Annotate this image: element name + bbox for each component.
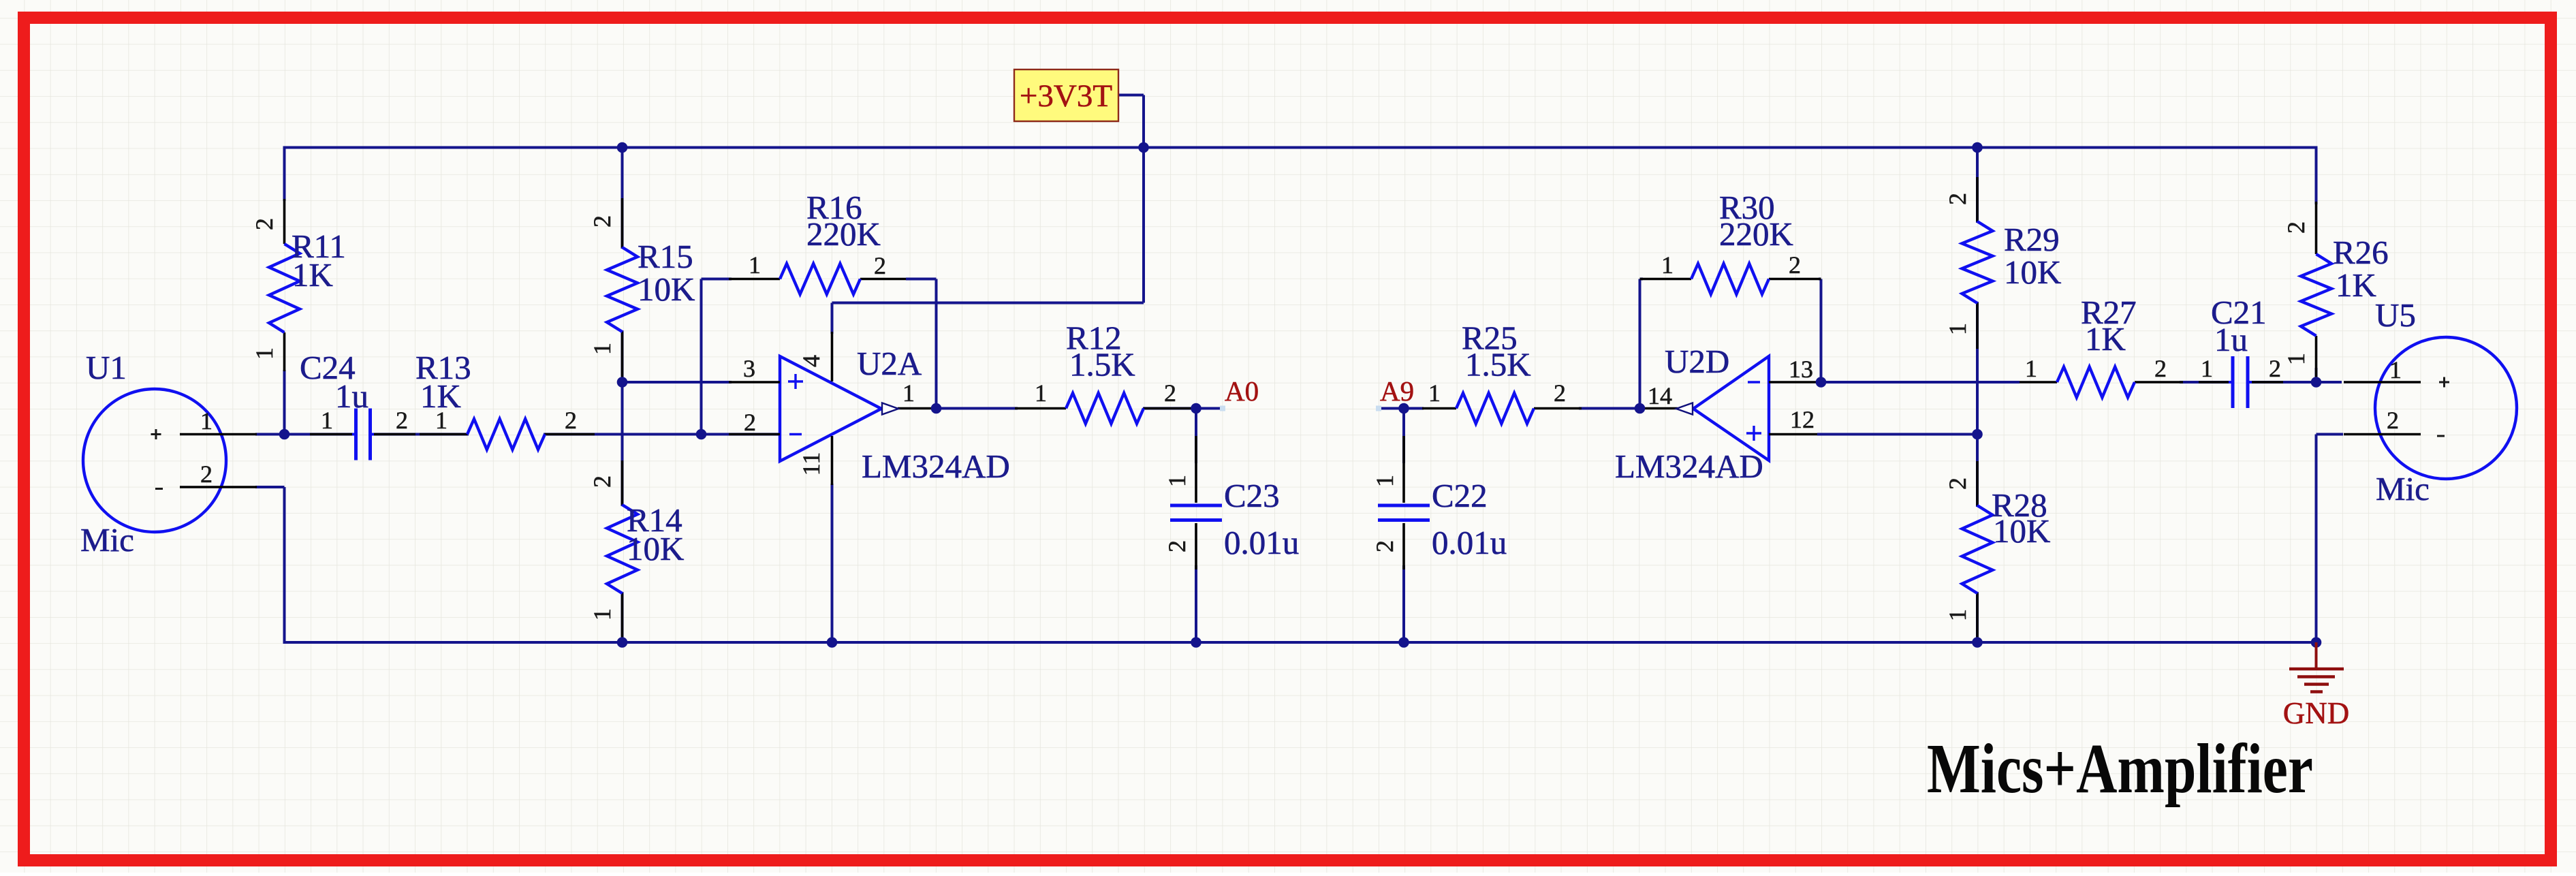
op-amp U2D bbox=[1615, 343, 1821, 485]
svg-text:1u: 1u bbox=[335, 377, 368, 415]
svg-text:1: 1 bbox=[251, 347, 278, 360]
svg-text:4: 4 bbox=[798, 355, 825, 367]
capacitor C21 bbox=[2199, 294, 2283, 408]
svg-text:1: 1 bbox=[749, 251, 761, 279]
wire R29/R28 divider column bbox=[1976, 148, 1979, 643]
svg-text:13: 13 bbox=[1789, 356, 1813, 383]
svg-text:LM324AD: LM324AD bbox=[862, 448, 1010, 485]
wire U2D pin13 row to R27/C21/mic node bbox=[1821, 381, 2342, 384]
svg-text:2: 2 bbox=[1789, 251, 1801, 279]
svg-text:1K: 1K bbox=[2336, 266, 2376, 304]
svg-text:1: 1 bbox=[588, 343, 616, 355]
capacitor C24 bbox=[300, 349, 415, 460]
svg-text:2: 2 bbox=[874, 252, 886, 279]
svg-text:2: 2 bbox=[396, 407, 408, 434]
svg-text:Mic: Mic bbox=[80, 521, 134, 559]
resistor R13 bbox=[415, 349, 595, 450]
wire C22 column bbox=[1402, 409, 1405, 643]
svg-text:R26: R26 bbox=[2333, 234, 2389, 271]
svg-text:2: 2 bbox=[1944, 478, 1971, 490]
svg-text:2: 2 bbox=[2154, 355, 2167, 382]
svg-text:2: 2 bbox=[565, 407, 577, 434]
svg-text:12: 12 bbox=[1790, 406, 1815, 433]
svg-text:U5: U5 bbox=[2375, 296, 2416, 334]
junction R28 bottom on ground bus bbox=[1972, 637, 1983, 648]
svg-text:1: 1 bbox=[1371, 475, 1398, 487]
wire +3V3T to bus and U2A pin4 bbox=[832, 95, 1144, 334]
svg-text:2: 2 bbox=[1164, 379, 1176, 407]
svg-text:1: 1 bbox=[588, 608, 616, 621]
junction U2D output node bbox=[1635, 403, 1646, 414]
svg-text:1: 1 bbox=[2201, 355, 2213, 382]
wire R30 feedback row bbox=[1640, 278, 1821, 281]
svg-text:1: 1 bbox=[435, 407, 447, 434]
svg-text:10K: 10K bbox=[2004, 253, 2061, 291]
svg-text:2: 2 bbox=[200, 460, 213, 488]
svg-text:2: 2 bbox=[2269, 355, 2281, 382]
wire R16 left leg bbox=[700, 279, 703, 435]
capacitor C23 bbox=[1163, 436, 1299, 569]
junction +3V3T on bus bbox=[1138, 142, 1149, 153]
svg-text:11: 11 bbox=[798, 452, 825, 476]
svg-text:C23: C23 bbox=[1224, 477, 1280, 514]
wire R30 left leg from output node bbox=[1639, 279, 1642, 409]
svg-text:1K: 1K bbox=[292, 256, 333, 294]
svg-text:1: 1 bbox=[2389, 356, 2402, 384]
junction mic+/R11 node bbox=[279, 429, 290, 440]
wire mic U1 - lead bbox=[255, 486, 285, 488]
svg-text:3: 3 bbox=[743, 355, 755, 382]
wire C23 column bbox=[1195, 409, 1197, 643]
microphone U1 bbox=[80, 349, 257, 559]
svg-text:2: 2 bbox=[2387, 407, 2399, 434]
svg-text:2: 2 bbox=[1371, 540, 1398, 552]
svg-text:U2A: U2A bbox=[857, 345, 922, 382]
svg-text:A0: A0 bbox=[1225, 375, 1259, 407]
svg-text:Mic: Mic bbox=[2376, 470, 2430, 507]
svg-text:1: 1 bbox=[2282, 353, 2310, 365]
wire U2D pin12 row to divider bbox=[1817, 433, 1977, 436]
wire mic U1 - drop to bottom bus bbox=[283, 487, 286, 642]
svg-text:+3V3T: +3V3T bbox=[1020, 78, 1112, 114]
svg-text:2: 2 bbox=[588, 475, 616, 488]
svg-text:U1: U1 bbox=[86, 349, 127, 386]
svg-text:0.01u: 0.01u bbox=[1224, 524, 1299, 561]
svg-text:2: 2 bbox=[1554, 379, 1566, 407]
svg-text:1: 1 bbox=[1163, 475, 1191, 487]
svg-text:220K: 220K bbox=[806, 215, 881, 253]
resistor R26 bbox=[2282, 202, 2389, 379]
svg-text:GND: GND bbox=[2283, 696, 2350, 730]
op-amp U2A bbox=[729, 332, 1010, 485]
svg-text:A9: A9 bbox=[1380, 375, 1414, 407]
junction R16 left leg / minus row bbox=[696, 429, 707, 440]
ground GND power port bbox=[2283, 642, 2350, 730]
svg-text:R29: R29 bbox=[2004, 221, 2060, 258]
wire R11 bottom to mic+ node bbox=[283, 370, 286, 435]
svg-text:1.5K: 1.5K bbox=[1069, 346, 1135, 384]
wire R26 column from bus bbox=[2315, 146, 2318, 383]
svg-text:220K: 220K bbox=[1719, 215, 1793, 253]
resistor R27 bbox=[2020, 294, 2183, 398]
junction mic drop on ground bus (GND node) bbox=[2311, 637, 2322, 648]
svg-text:LM324AD: LM324AD bbox=[1615, 448, 1763, 485]
wire U2A output row to A0 stub bbox=[933, 407, 1223, 410]
junction C23 on ground bus bbox=[1191, 637, 1201, 648]
svg-text:0.01u: 0.01u bbox=[1432, 524, 1507, 561]
junction A9 node bbox=[1398, 403, 1409, 414]
svg-text:1.5K: 1.5K bbox=[1465, 346, 1531, 384]
svg-text:C22: C22 bbox=[1432, 477, 1488, 514]
junction A0 node bbox=[1191, 403, 1201, 414]
junction R15 top on bus bbox=[617, 142, 628, 153]
wire R16 feedback row bbox=[702, 278, 937, 281]
wire top supply bus bbox=[285, 146, 2316, 149]
resistor R30 bbox=[1640, 189, 1821, 294]
sheet title Mics+Amplifier bbox=[1927, 730, 2313, 808]
wire R15/R14 bias column bbox=[621, 148, 624, 643]
svg-text:2: 2 bbox=[2282, 221, 2310, 234]
svg-text:1: 1 bbox=[321, 407, 333, 434]
svg-text:1: 1 bbox=[902, 379, 915, 407]
svg-text:14: 14 bbox=[1648, 382, 1672, 409]
resistor R28 bbox=[1944, 461, 2050, 638]
junction C22 on ground bus bbox=[1398, 637, 1409, 648]
wire U2A pin11 to ground bus bbox=[831, 484, 834, 642]
resistor R16 bbox=[729, 189, 906, 294]
svg-text:1: 1 bbox=[2025, 355, 2037, 382]
svg-text:10K: 10K bbox=[627, 530, 684, 567]
junction R30/pin13 node bbox=[1816, 377, 1827, 388]
svg-text:Mics+Amplifier: Mics+Amplifier bbox=[1927, 730, 2313, 808]
wire A9 stub to R25 and U2D pin14 bbox=[1379, 407, 1640, 410]
wire bottom ground bus bbox=[283, 641, 2316, 644]
svg-text:U2D: U2D bbox=[1665, 343, 1729, 380]
svg-text:10K: 10K bbox=[1993, 512, 2050, 550]
svg-text:1K: 1K bbox=[2085, 320, 2126, 358]
junction R29 top on bus bbox=[1972, 142, 1983, 153]
node A0 net label bbox=[1220, 375, 1259, 411]
resistor R11 bbox=[251, 199, 346, 371]
junction U2A pin11 on ground bus bbox=[827, 637, 838, 648]
svg-text:1: 1 bbox=[1428, 379, 1441, 407]
resistor R29 bbox=[1944, 177, 2061, 349]
wire mic U1 + row (to C24, R13, U2A pin2) bbox=[255, 433, 780, 436]
wire mic U5 - lead and drop to ground bus bbox=[2316, 435, 2344, 643]
node A9 net label bbox=[1376, 375, 1414, 411]
capacitor C22 bbox=[1371, 436, 1507, 569]
svg-text:2: 2 bbox=[1163, 540, 1191, 552]
svg-text:2: 2 bbox=[588, 215, 616, 228]
junction U2A output node bbox=[931, 403, 942, 414]
power port +3V3T bbox=[1014, 69, 1118, 121]
resistor R12 bbox=[1015, 319, 1194, 424]
svg-text:1: 1 bbox=[1944, 323, 1971, 335]
wire R30 right leg to pin13 node bbox=[1820, 279, 1823, 383]
junction R14 bottom on ground bus bbox=[617, 637, 628, 648]
microphone U5 bbox=[2344, 296, 2517, 507]
wire U2A pin3 row from divider bbox=[623, 381, 732, 384]
svg-text:2: 2 bbox=[251, 218, 278, 230]
junction R15/R14/pin3 node bbox=[617, 377, 628, 388]
junction R29/R28/pin12 node bbox=[1972, 429, 1983, 440]
svg-text:2: 2 bbox=[1944, 193, 1971, 205]
svg-text:10K: 10K bbox=[638, 270, 695, 308]
svg-text:1: 1 bbox=[200, 407, 213, 435]
wire R11 top from bus bbox=[283, 146, 286, 202]
wire R16 right leg to output node bbox=[935, 279, 938, 409]
resistor R15 bbox=[588, 198, 695, 379]
svg-text:1: 1 bbox=[1944, 609, 1971, 621]
junction C21/R26/mic node bbox=[2311, 377, 2322, 388]
svg-text:2: 2 bbox=[744, 409, 756, 436]
svg-text:1: 1 bbox=[1035, 379, 1047, 407]
resistor R14 bbox=[588, 460, 684, 638]
svg-text:1u: 1u bbox=[2214, 321, 2248, 358]
svg-text:1: 1 bbox=[1661, 251, 1674, 279]
resistor R25 bbox=[1422, 319, 1582, 424]
svg-text:R15: R15 bbox=[638, 238, 693, 275]
